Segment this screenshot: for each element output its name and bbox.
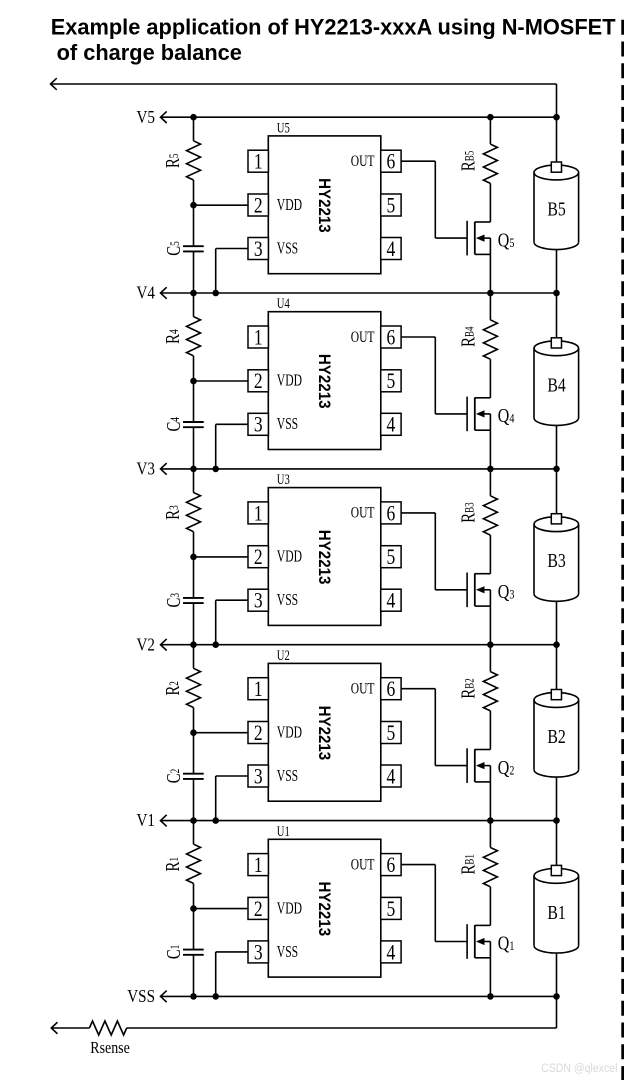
svg-text:CSDN @qlexcel: CSDN @qlexcel: [541, 1062, 617, 1075]
svg-text:3: 3: [254, 413, 263, 438]
pin 1 U5: [248, 150, 268, 172]
pin 2 U2: [248, 722, 268, 744]
transistor Q3 drain lead: [475, 573, 491, 575]
svg-text:4: 4: [387, 589, 396, 614]
wire V1 rail to battery B1 terminal: [556, 821, 558, 868]
wire RB3 to drain Q3: [489, 535, 491, 574]
svg-text:VSS: VSS: [277, 240, 298, 258]
capacitor C2: [183, 773, 204, 775]
pin 4 U4: [381, 413, 401, 435]
battery B5 right side: [578, 173, 580, 243]
transistor Q1 body arrow: [483, 941, 490, 943]
svg-text:VSS: VSS: [277, 767, 298, 785]
svg-text:B2: B2: [547, 725, 565, 747]
svg-text:OUT: OUT: [351, 328, 375, 345]
junction dots on V4: [190, 290, 197, 297]
arrowhead V2: [161, 639, 167, 651]
pin 5 U4: [381, 370, 401, 392]
svg-text:HY2213: HY2213: [315, 354, 334, 409]
svg-text:2: 2: [254, 193, 263, 218]
pin 6 U5: [381, 150, 401, 172]
wire V2 rail to RB2: [489, 645, 491, 672]
transistor Q5 source lead: [475, 253, 491, 255]
wire V1 rail to RB1: [489, 821, 491, 848]
wire from V3 rail to R3: [193, 469, 195, 493]
svg-text:2: 2: [254, 897, 263, 922]
transistor Q1 drain lead: [475, 924, 491, 926]
svg-text:5: 5: [387, 369, 396, 394]
svg-text:3: 3: [254, 589, 263, 614]
op-amp U2 HY2213 body: [268, 663, 381, 801]
wire V4 rail to battery B4 terminal: [556, 293, 558, 340]
transistor Q2 gate bar: [466, 748, 468, 783]
battery B3 terminal: [551, 514, 561, 524]
svg-text:U4: U4: [277, 296, 290, 312]
svg-text:3: 3: [254, 764, 263, 789]
battery B1 bottom arc: [534, 946, 579, 953]
svg-text:VDD: VDD: [277, 372, 302, 390]
pin 6 U2: [381, 678, 401, 700]
battery B2 top ellipse: [534, 693, 579, 708]
resistor R5: [187, 141, 201, 180]
wire R2 to C2: [193, 708, 195, 774]
battery B5 top ellipse: [534, 165, 579, 180]
transistor Q2 body arrow: [483, 765, 490, 767]
op-amp U5 HY2213 body: [268, 136, 381, 274]
node V1 rail wire: [161, 820, 557, 822]
battery B5 bottom arc: [534, 242, 579, 249]
node V5 rail wire: [161, 116, 557, 118]
pin 5 U1: [381, 897, 401, 919]
wire battery B2 to V1 rail: [556, 777, 558, 821]
wire C3 to V2 rail: [193, 603, 195, 645]
wire VSS pin3 U1: [216, 951, 248, 953]
svg-text:VSS: VSS: [277, 591, 298, 609]
arrowhead V5: [161, 111, 167, 123]
transistor Q4 drain lead: [475, 397, 491, 399]
battery B4 right side: [578, 348, 580, 418]
pin 5 U3: [381, 546, 401, 568]
pin 4 U5: [381, 238, 401, 260]
wire C5 to V4 rail: [193, 251, 195, 293]
svg-text:1: 1: [254, 501, 263, 526]
battery B3 bottom arc: [534, 594, 579, 601]
svg-text:V5: V5: [137, 107, 155, 128]
battery B1 top ellipse: [534, 869, 579, 884]
junction VDD node U2: [190, 729, 197, 736]
wire OUT pin6 U5 to gate Q5: [401, 160, 435, 162]
transistor Q1 source lead: [475, 957, 491, 959]
transistor Q4 gate bar: [466, 397, 468, 432]
wire battery B5 to V4 rail: [556, 250, 558, 293]
pin 5 U2: [381, 722, 401, 744]
wire source Q1 to VSS rail: [489, 958, 491, 997]
arrowhead pack-: [51, 1022, 57, 1034]
wire VDD pin2 U2: [194, 732, 249, 734]
svg-text:VSS: VSS: [277, 943, 298, 961]
svg-text:of charge balance: of charge balance: [57, 40, 242, 65]
battery B2 right side: [578, 700, 580, 770]
battery B2 left side: [533, 700, 535, 770]
transistor Q2 drain lead: [475, 749, 491, 751]
transistor Q5 channel bar: [474, 222, 476, 255]
wire VSS pin3 U5: [216, 248, 248, 250]
resistor RB5: [483, 144, 497, 183]
transistor Q3 source lead: [475, 605, 491, 607]
svg-text:B4: B4: [547, 374, 565, 396]
transistor Q4 channel bar: [474, 398, 476, 431]
wire battery B3 to V2 rail: [556, 601, 558, 644]
wire R3 to C3: [193, 532, 195, 598]
svg-text:6: 6: [387, 853, 396, 878]
resistor RB1: [483, 848, 497, 887]
svg-text:1: 1: [254, 677, 263, 702]
wire VDD pin2 U1: [194, 908, 249, 910]
svg-text:5: 5: [387, 897, 396, 922]
battery B1 right side: [578, 876, 580, 946]
pin 2 U1: [248, 897, 268, 919]
junction VDD node U5: [190, 202, 197, 209]
svg-text:OUT: OUT: [351, 856, 375, 873]
svg-text:1: 1: [254, 325, 263, 350]
wire from V5 rail to R5: [193, 117, 195, 141]
wire battery B4 to V3 rail: [556, 425, 558, 469]
resistor RB4: [483, 320, 497, 359]
svg-text:B1: B1: [547, 901, 565, 923]
wire V5 rail to RB5: [489, 117, 491, 144]
node VSS rail wire: [161, 995, 557, 997]
svg-text:B3: B3: [547, 549, 565, 571]
resistor R1: [187, 844, 201, 883]
junction dots on V5: [190, 114, 197, 121]
node V4 rail wire: [161, 292, 557, 294]
pin 1 U1: [248, 854, 268, 876]
wire body to source Q4: [489, 414, 491, 430]
junction dots on V2: [190, 641, 197, 648]
svg-text:HY2213: HY2213: [315, 178, 334, 233]
pin 1 U2: [248, 678, 268, 700]
svg-text:4: 4: [387, 413, 396, 438]
svg-text:5: 5: [387, 545, 396, 570]
svg-text:4: 4: [387, 764, 396, 789]
transistor Q1 channel bar: [474, 925, 476, 958]
wire: pack+ top lead: [51, 83, 557, 85]
transistor Q4 body arrow: [483, 413, 490, 415]
wire VSS pin3 U4: [216, 423, 248, 425]
pin 3 U3: [248, 589, 268, 611]
svg-text:V1: V1: [137, 810, 155, 831]
battery B3 right side: [578, 524, 580, 594]
wire OUT pin6 U1 to gate Q1: [401, 864, 435, 866]
wire OUT pin6 U2 to gate Q2: [401, 688, 435, 690]
junction VDD node U4: [190, 378, 197, 385]
svg-text:VDD: VDD: [277, 899, 302, 917]
svg-text:6: 6: [387, 677, 396, 702]
wire source Q3 to V2 rail: [489, 606, 491, 645]
pin 2 U5: [248, 194, 268, 216]
svg-text:OUT: OUT: [351, 680, 375, 697]
svg-text:1: 1: [254, 853, 263, 878]
pin 6 U4: [381, 326, 401, 348]
wire C4 to V3 rail: [193, 427, 195, 469]
pin 2 U4: [248, 370, 268, 392]
battery B5 left side: [533, 173, 535, 243]
resistor RB2: [483, 672, 497, 711]
svg-text:Example application of HY2213-: Example application of HY2213-xxxA using…: [51, 14, 617, 39]
battery B4 top ellipse: [534, 341, 579, 356]
junction dots on VSS: [190, 993, 197, 1000]
svg-text:1: 1: [254, 150, 263, 175]
pin 4 U3: [381, 589, 401, 611]
wire VDD pin2 U4: [194, 380, 249, 382]
wire body to source Q5: [489, 238, 491, 254]
battery B3 top ellipse: [534, 517, 579, 532]
junction VDD node U1: [190, 905, 197, 912]
battery B2 terminal: [551, 690, 561, 700]
svg-text:Rsense: Rsense: [90, 1039, 130, 1058]
transistor Q3 gate bar: [466, 573, 468, 608]
arrowhead V1: [161, 815, 167, 827]
svg-text:3: 3: [254, 940, 263, 965]
pin 6 U3: [381, 502, 401, 524]
wire RB5 to drain Q5: [489, 183, 491, 222]
svg-text:6: 6: [387, 501, 396, 526]
transistor Q1 gate bar: [466, 924, 468, 959]
transistor Q3 body arrow: [483, 589, 490, 591]
battery B4 bottom arc: [534, 418, 579, 425]
svg-text:5: 5: [387, 193, 396, 218]
dashed page border: [621, 20, 624, 1080]
wire RB2 to drain Q2: [489, 711, 491, 750]
wire V2 rail to battery B2 terminal: [556, 645, 558, 692]
wire VSS rail down to Rsense: [556, 996, 558, 1028]
pin 3 U1: [248, 941, 268, 963]
wire from V4 rail to R4: [193, 293, 195, 317]
wire OUT pin6 U3 to gate Q3: [401, 512, 435, 514]
node V3 rail wire: [161, 468, 557, 470]
wire C2 to V1 rail: [193, 779, 195, 821]
arrowhead V3: [161, 463, 167, 475]
resistor R2: [187, 668, 201, 707]
battery B5 terminal: [551, 162, 561, 172]
wire body to source Q1: [489, 942, 491, 958]
svg-text:V4: V4: [137, 282, 156, 303]
svg-text:5: 5: [387, 721, 396, 746]
pin 3 U5: [248, 238, 268, 260]
svg-text:VSS: VSS: [277, 415, 298, 433]
wire VDD pin2 U5: [194, 204, 249, 206]
wire RB4 to drain Q4: [489, 359, 491, 398]
pin 4 U2: [381, 765, 401, 787]
svg-text:HY2213: HY2213: [315, 706, 334, 761]
svg-text:2: 2: [254, 369, 263, 394]
wire VDD pin2 U3: [194, 556, 249, 558]
battery B2 bottom arc: [534, 770, 579, 777]
svg-text:OUT: OUT: [351, 504, 375, 521]
wire Rsense left lead: [51, 1027, 89, 1029]
op-amp U4 HY2213 body: [268, 312, 381, 450]
pin 2 U3: [248, 546, 268, 568]
svg-text:OUT: OUT: [351, 152, 375, 169]
battery B4 left side: [533, 348, 535, 418]
pin 4 U1: [381, 941, 401, 963]
battery B4 terminal: [551, 338, 561, 348]
wire RB1 to drain Q1: [489, 887, 491, 926]
svg-text:U3: U3: [277, 471, 290, 487]
svg-text:4: 4: [387, 940, 396, 965]
transistor Q5 body arrow: [483, 237, 490, 239]
pin 1 U4: [248, 326, 268, 348]
battery B1 terminal: [551, 865, 561, 875]
svg-text:U1: U1: [277, 823, 290, 839]
svg-text:4: 4: [387, 237, 396, 262]
arrowhead VSS: [161, 991, 167, 1003]
wire V4 rail to RB4: [489, 293, 491, 320]
wire R5 to C5: [193, 180, 195, 246]
svg-text:V3: V3: [137, 458, 155, 479]
wire VSS pin3 U2: [216, 775, 248, 777]
svg-text:U5: U5: [277, 120, 290, 136]
transistor Q5 gate bar: [466, 221, 468, 256]
capacitor C5: [183, 245, 204, 247]
wire R4 to C4: [193, 356, 195, 422]
battery B1 left side: [533, 876, 535, 946]
transistor Q3 channel bar: [474, 573, 476, 606]
svg-text:HY2213: HY2213: [315, 881, 334, 936]
wire C1 to VSS rail: [193, 955, 195, 997]
pin 3 U4: [248, 413, 268, 435]
svg-text:VDD: VDD: [277, 548, 302, 566]
wire R1 to C1: [193, 883, 195, 949]
wire battery B1 to VSS rail: [556, 953, 558, 996]
transistor Q4 source lead: [475, 429, 491, 431]
transistor Q2 channel bar: [474, 749, 476, 782]
svg-text:VDD: VDD: [277, 196, 302, 214]
capacitor C1: [183, 949, 204, 951]
wire source Q5 to V4 rail: [489, 254, 491, 293]
pin 3 U2: [248, 765, 268, 787]
wire from V2 rail to R2: [193, 645, 195, 669]
capacitor C4: [183, 421, 204, 423]
svg-text:2: 2: [254, 545, 263, 570]
wire source Q4 to V3 rail: [489, 430, 491, 469]
op-amp U1 HY2213 body: [268, 839, 381, 977]
wire source Q2 to V1 rail: [489, 782, 491, 821]
svg-text:B5: B5: [547, 198, 565, 220]
pin 6 U1: [381, 854, 401, 876]
wire V5 rail to battery B5 terminal: [556, 117, 558, 164]
svg-text:HY2213: HY2213: [315, 530, 334, 585]
battery B3 left side: [533, 524, 535, 594]
resistor R3: [187, 493, 201, 532]
resistor Rsense: [89, 1021, 126, 1035]
arrowhead V4: [161, 287, 167, 299]
wire from V1 rail to R1: [193, 821, 195, 845]
node V2 rail wire: [161, 644, 557, 646]
junction dots on V1: [190, 817, 197, 824]
svg-text:3: 3: [254, 237, 263, 262]
capacitor C3: [183, 597, 204, 599]
resistor RB3: [483, 496, 497, 535]
wire Rsense right lead: [127, 1027, 557, 1029]
resistor R4: [187, 317, 201, 356]
wire V3 rail to RB3: [489, 469, 491, 496]
op-amp U3 HY2213 body: [268, 488, 381, 626]
pin 5 U5: [381, 194, 401, 216]
svg-text:VDD: VDD: [277, 724, 302, 742]
svg-text:VSS: VSS: [127, 986, 155, 1007]
wire OUT pin6 U4 to gate Q4: [401, 336, 435, 338]
wire VSS pin3 U3: [216, 599, 248, 601]
wire V3 rail to battery B3 terminal: [556, 469, 558, 516]
svg-text:6: 6: [387, 150, 396, 175]
arrowhead pack+: [51, 78, 57, 90]
wire body to source Q2: [489, 766, 491, 782]
junction dots on V3: [190, 466, 197, 473]
svg-text:2: 2: [254, 721, 263, 746]
junction VDD node U3: [190, 554, 197, 561]
svg-text:V2: V2: [137, 634, 155, 655]
wire body to source Q3: [489, 590, 491, 606]
svg-text:6: 6: [387, 325, 396, 350]
pin 1 U3: [248, 502, 268, 524]
transistor Q2 source lead: [475, 781, 491, 783]
transistor Q5 drain lead: [475, 221, 491, 223]
svg-text:U2: U2: [277, 647, 290, 663]
